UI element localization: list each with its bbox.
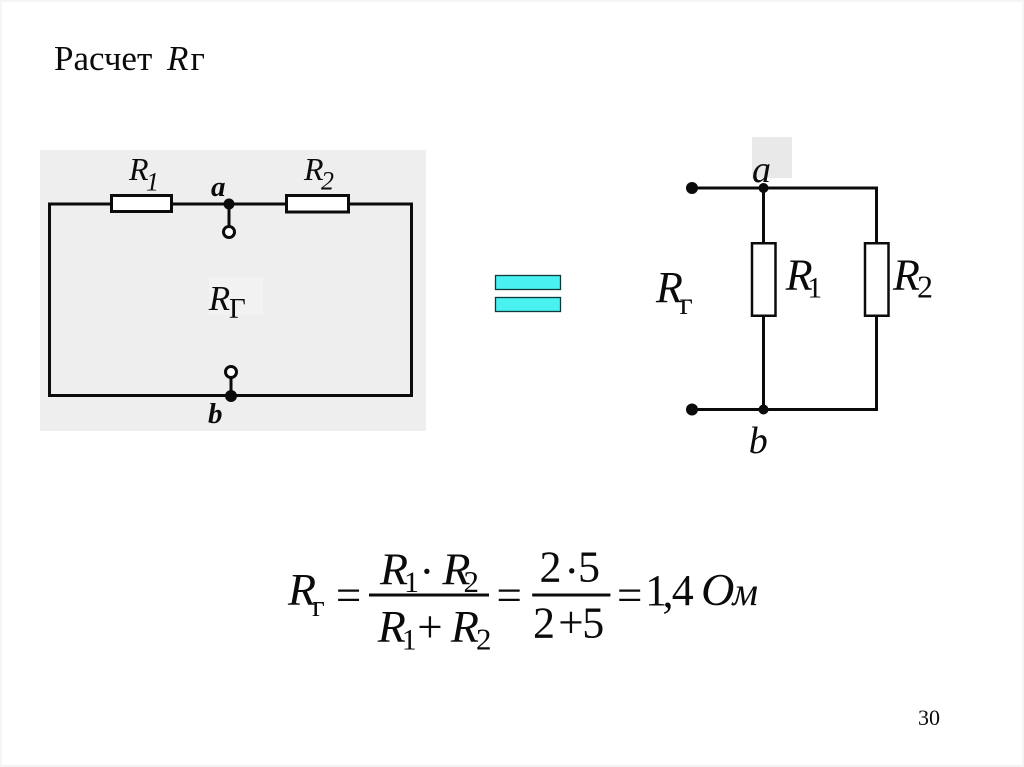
svg-text:2: 2 xyxy=(476,622,492,657)
svg-text:4: 4 xyxy=(672,566,694,615)
svg-text:·: · xyxy=(564,546,579,596)
svg-text:+: + xyxy=(417,602,442,652)
svg-text:R: R xyxy=(892,251,920,300)
svg-text:=: = xyxy=(336,571,361,621)
svg-text:R: R xyxy=(450,601,479,652)
svg-text:1: 1 xyxy=(404,566,419,599)
svg-text:R: R xyxy=(208,279,230,318)
svg-text:2: 2 xyxy=(540,543,562,592)
svg-text:a: a xyxy=(211,171,226,203)
svg-text:5: 5 xyxy=(582,599,604,648)
svg-text:г: г xyxy=(680,285,693,321)
svg-text:1: 1 xyxy=(402,624,417,657)
svg-text:2: 2 xyxy=(464,564,480,599)
svg-text:=: = xyxy=(617,571,642,621)
svg-text:2: 2 xyxy=(321,166,334,195)
svg-text:Γ: Γ xyxy=(229,293,246,325)
svg-text:2: 2 xyxy=(533,599,555,648)
svg-text:5: 5 xyxy=(578,543,600,592)
svg-text:b: b xyxy=(208,398,223,430)
svg-text:2: 2 xyxy=(917,269,933,305)
svg-text:г: г xyxy=(312,588,325,623)
svg-text:b: b xyxy=(749,420,768,462)
svg-text:+: + xyxy=(558,598,583,648)
svg-text:1: 1 xyxy=(146,168,159,197)
svg-text:1: 1 xyxy=(807,272,822,305)
svg-text:О: О xyxy=(701,564,734,615)
svg-text:=: = xyxy=(497,571,522,621)
svg-text:a: a xyxy=(752,149,771,191)
svg-text:·: · xyxy=(419,547,434,597)
svg-text:м: м xyxy=(731,569,759,614)
